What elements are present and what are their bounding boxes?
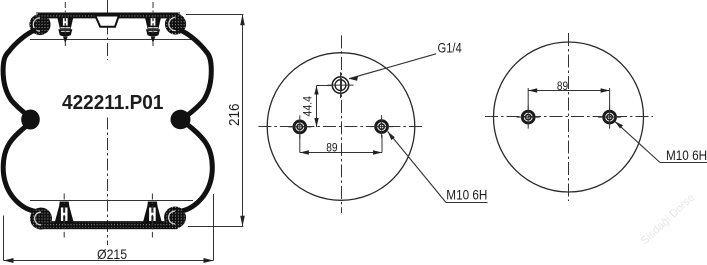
svg-text:422211.P01: 422211.P01 bbox=[62, 91, 164, 114]
dimension 216: vertical dimension line with arrows bbox=[242, 15, 244, 227]
bellow lower-right lobe bbox=[170, 123, 212, 212]
dimension O215: left extension line bbox=[3, 216, 5, 261]
dimension 89 (middle view): dimension line with arrows bbox=[300, 152, 382, 154]
dimension 89 (right view): extension lines bbox=[528, 88, 609, 111]
main vertical centerline bbox=[107, 0, 109, 60]
bellow upper-right lobe bbox=[181, 31, 211, 117]
left girdle-hoop waist knob bbox=[21, 110, 40, 130]
M10 6H label (middle view) with leader arrow bbox=[388, 131, 488, 202]
svg-text:89: 89 bbox=[326, 142, 337, 155]
M10 hole left (middle view) bbox=[288, 115, 311, 138]
svg-text:G1/4: G1/4 bbox=[438, 40, 462, 55]
top plate centre notch bbox=[95, 16, 119, 27]
dimension 44.4 vertical line with arrows bbox=[317, 86, 333, 128]
top plate band bbox=[38, 13, 178, 18]
top bolt left (blind nut boss) bbox=[57, 2, 73, 46]
svg-text:Sisdaği Dorse: Sisdaği Dorse bbox=[639, 192, 697, 247]
M10 hole right (middle view) bbox=[370, 115, 393, 138]
bottom plate band bbox=[39, 222, 177, 230]
M10 hole right (right view) bbox=[598, 106, 621, 129]
bottom plate left bead roll bbox=[30, 208, 52, 230]
dimension 89 (middle view): extension lines bbox=[300, 135, 382, 153]
bellow upper-left lobe bbox=[3, 31, 34, 117]
dimension O215: right extension line bbox=[213, 194, 215, 261]
top mounting surface line (under top plate) bbox=[30, 39, 193, 41]
bellow lower-left lobe bbox=[3, 123, 45, 212]
G1/4 label with leader arrow bbox=[349, 54, 436, 79]
M10 6H label (right view) with leader arrow bbox=[615, 121, 707, 162]
bottom-plan horizontal centerline bbox=[485, 116, 653, 118]
top-plan horizontal centerline bbox=[258, 126, 424, 128]
top plate right bead roll bbox=[165, 13, 186, 34]
bottom bolt right (stud boss) bbox=[143, 194, 162, 238]
dimension O215: horizontal dimension line with arrows bbox=[4, 260, 214, 262]
dimension 89 (right view): dimension line with arrows bbox=[528, 90, 609, 92]
G1/4 air port hole bbox=[328, 72, 354, 98]
bottom mounting surface line (over bottom plate) bbox=[30, 200, 193, 202]
svg-text:Ø215: Ø215 bbox=[97, 246, 127, 262]
top bolt right (blind nut boss) bbox=[145, 2, 161, 46]
svg-text:M10 6H: M10 6H bbox=[666, 148, 707, 163]
right girdle-hoop waist knob bbox=[171, 110, 191, 130]
top-plan circle outline bbox=[267, 53, 415, 201]
M10 hole left (right view) bbox=[517, 106, 540, 129]
top-plan vertical centerline bbox=[341, 35, 343, 213]
svg-text:89: 89 bbox=[557, 80, 568, 93]
bottom-plan circle outline bbox=[494, 42, 644, 192]
top plate left bead roll bbox=[29, 14, 50, 35]
svg-text:M10 6H: M10 6H bbox=[446, 188, 487, 203]
svg-text:44.4: 44.4 bbox=[302, 96, 315, 117]
svg-text:216: 216 bbox=[226, 103, 243, 126]
dimension 216: top extension line bbox=[186, 14, 243, 16]
bottom bolt left (stud boss) bbox=[55, 194, 74, 238]
bottom plate right bead roll bbox=[164, 207, 186, 229]
bottom-plan vertical centerline bbox=[568, 33, 570, 201]
dimension 216: bottom extension line bbox=[188, 226, 243, 228]
